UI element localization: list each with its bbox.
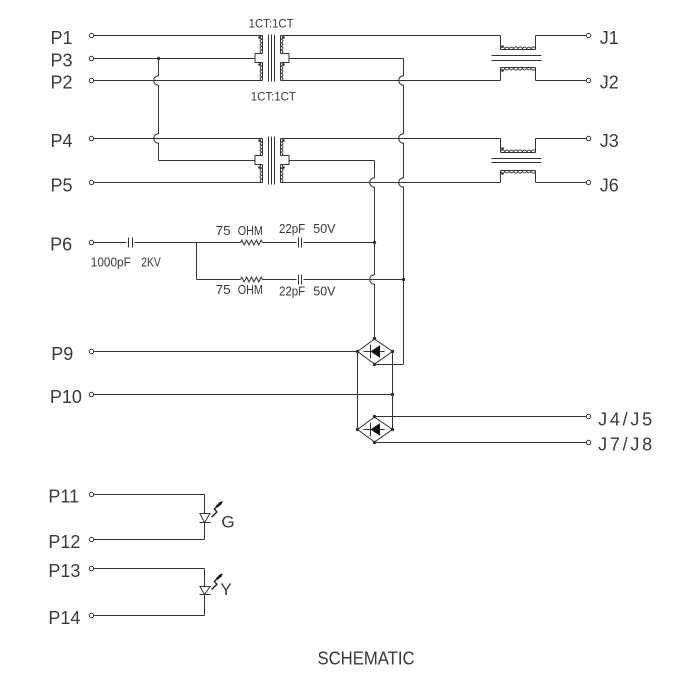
svg-text:J6: J6 [600,175,619,195]
LED G (green) [200,514,211,523]
pin P1 label [51,28,73,48]
node junction T1 net / bottom RC branch [402,278,405,281]
pin P13 label [48,561,80,581]
wire R1 to C2 [263,242,297,244]
pin J4/J5 terminal [586,414,590,418]
wire D1 left to D2 left [357,352,359,430]
svg-text:J2: J2 [600,72,619,92]
choke L1 top winding [501,36,536,50]
wire P10 to bridge [94,394,393,396]
title SCHEMATIC [318,648,415,668]
svg-text:50V: 50V [313,221,336,236]
transformer T2 secondary winding [281,139,290,183]
D2 vertex junction dots [356,415,394,444]
pin J1 label [600,28,619,48]
transformer T1 secondary winding [281,36,290,81]
label R2 75 OHM [216,282,263,297]
choke L2 phase dots [501,147,504,175]
LED Y arrow [212,573,224,589]
svg-text:G: G [221,513,234,532]
node junction P10 net [391,393,394,396]
capacitor C3 22pF 50V [299,275,302,285]
wire P9 to diode D1 [94,351,358,353]
pin P11 terminal [89,492,93,496]
wire T1 secondary center tap [289,58,404,60]
svg-text:P2: P2 [51,72,73,92]
wire choke L1 to J2 [536,80,587,82]
pin J7/J8 label [598,434,652,454]
pin P12 label [48,532,80,552]
wire C2 to T2 net [304,242,375,244]
wire T2 secondary bottom to choke L2 [281,182,501,184]
pin P12 terminal [89,537,93,541]
pin P11 label [48,486,79,506]
svg-text:P11: P11 [48,486,79,506]
wire T1 center-tap net down to diode bridge [375,59,404,365]
diode D2 (TVS diamond) [358,417,393,442]
pin J6 terminal [586,180,590,184]
wire choke L1 to J1 [536,35,587,37]
pin J2 label [600,72,619,92]
pin P9 label [51,344,73,364]
svg-text:OHM: OHM [238,223,263,238]
svg-text:J1: J1 [600,28,619,48]
wire T2 secondary top to choke L2 [281,138,501,140]
choke L1 bottom winding [501,68,536,81]
wire P2 to T1 primary bottom [94,80,263,82]
wire T1 secondary bottom to choke L1 [281,80,501,82]
wire P3 net down to T2 center tap [154,59,255,161]
transformer T2 primary winding [255,139,263,183]
svg-text:P13: P13 [48,561,80,581]
pin P14 label [48,608,80,628]
wire D2 to J4/J5 [375,416,587,418]
svg-text:P14: P14 [48,608,80,628]
node junction T2 net / top RC branch [373,241,376,244]
svg-text:22pF: 22pF [279,221,305,236]
pin P1 terminal [89,33,93,37]
wire P5 to T2 primary bottom [94,182,263,184]
pin P5 terminal [89,180,93,184]
wire D1 right to D2 right [392,352,394,430]
svg-text:J3: J3 [600,131,619,151]
svg-text:P4: P4 [51,131,73,151]
resistor R1 75 OHM [241,240,263,245]
wire D2 to J7/J8 [375,442,587,444]
wire R2 to C3 [263,279,297,281]
pin P6 label [50,234,72,254]
pin J3 label [600,131,619,151]
wire P13 to LED Y [94,569,205,587]
label 1CT:1CT (T2) [251,90,297,104]
pin P6 terminal [89,240,93,244]
pin P10 terminal [89,392,93,396]
pin P2 label [51,72,73,92]
svg-text:1CT:1CT: 1CT:1CT [251,90,297,104]
LED G arrow [212,501,224,517]
pin P5 label [51,175,73,195]
diode D1 (TVS diamond) [358,339,393,364]
wire T1 secondary top to choke L1 [281,35,501,37]
label C2 22pF 50V [279,221,336,236]
capacitor C1 1000pF 2KV [129,238,133,248]
pin P2 terminal [89,78,93,82]
capacitor C2 22pF 50V [299,238,302,248]
D1 vertex junction dots [356,337,394,366]
wire branch down [197,243,241,280]
wire P3 to T1 center tap [94,58,255,60]
wire P1 to T1 primary [94,35,263,37]
pin P14 terminal [89,613,93,617]
pin P13 terminal [89,566,93,570]
svg-text:75: 75 [216,223,231,238]
wire P4 to T2 primary [94,138,263,140]
pin P4 label [51,131,73,151]
label C3 22pF 50V [279,284,336,299]
svg-text:P12: P12 [48,532,80,552]
LED Y (yellow) [200,587,211,595]
svg-text:50V: 50V [313,284,336,299]
svg-text:75: 75 [216,282,231,297]
svg-text:2KV: 2KV [141,255,161,270]
choke L2 bottom winding [501,171,536,183]
svg-text:P5: P5 [51,175,73,195]
pin P3 terminal [89,56,93,60]
transformer T1 core [269,35,275,82]
transformer T1 primary winding [255,36,263,81]
wire choke L2 to J6 [536,182,587,184]
pin J1 terminal [586,33,590,37]
pin J4/J5 label [598,409,652,429]
svg-text:SCHEMATIC: SCHEMATIC [318,648,415,668]
wire C3 to T1 net [304,279,404,281]
choke L1 core [492,56,542,61]
svg-text:1000pF: 1000pF [91,255,131,270]
svg-text:J4/J5: J4/J5 [598,409,652,429]
label Y [220,580,231,599]
T2 phase dots [258,139,285,169]
pin J3 terminal [586,136,590,140]
svg-text:22pF: 22pF [279,284,305,299]
choke L2 core [492,159,542,163]
pin J6 label [600,175,619,195]
choke L1 phase dots [501,45,504,72]
label 1CT:1CT (T1) [249,17,295,31]
svg-text:P3: P3 [51,50,73,70]
pin P9 terminal [89,349,93,353]
svg-text:1CT:1CT: 1CT:1CT [249,17,295,31]
wire P11 to LED G [94,495,205,514]
wire T2 secondary center tap [289,160,375,162]
wire C1 to branch node [135,242,241,244]
wire LED G to P12 [94,523,205,540]
wire T2 center-tap net down to diode bridge [370,161,375,339]
transformer T2 core [269,137,275,185]
choke L2 top winding [501,139,536,153]
pin J7/J8 terminal [586,440,590,444]
wire P6 to C1 [94,242,127,244]
pin P3 label [51,50,73,70]
svg-text:P9: P9 [51,344,73,364]
resistor R2 75 OHM [241,277,263,282]
pin J2 terminal [586,78,590,82]
label G [221,513,234,532]
label R1 75 OHM [216,223,263,238]
pin P10 label [50,387,82,407]
wire choke L2 to J3 [536,138,587,140]
svg-text:P1: P1 [51,28,73,48]
T1 phase dots [258,36,285,66]
svg-text:P10: P10 [50,387,82,407]
svg-text:J7/J8: J7/J8 [598,434,652,454]
pin P4 terminal [89,136,93,140]
node junction P3 net [157,57,160,60]
svg-text:OHM: OHM [238,282,263,297]
svg-text:P6: P6 [50,234,72,254]
wire LED Y to P14 [94,595,205,616]
label 1000pF 2KV [91,255,161,270]
svg-text:Y: Y [220,580,231,599]
